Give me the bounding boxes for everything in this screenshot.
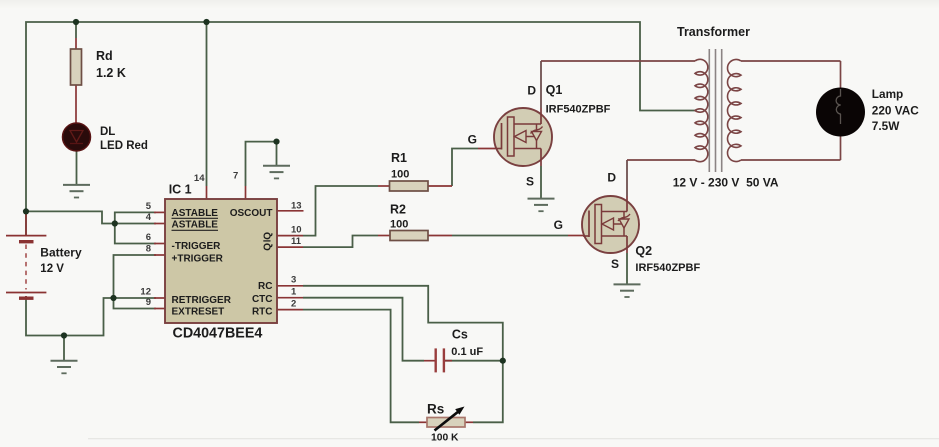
svg-text:IC 1: IC 1 [169,183,192,197]
svg-text:RETRIGGER: RETRIGGER [172,295,232,306]
svg-text:ASTABLE: ASTABLE [172,208,219,219]
svg-text:D: D [607,171,616,185]
svg-text:1.2 K: 1.2 K [96,66,126,80]
svg-text:RTC: RTC [252,307,273,318]
svg-text:7.5W: 7.5W [872,119,900,133]
svg-text:R2: R2 [390,203,406,217]
svg-text:CTC: CTC [252,294,273,305]
svg-text:Transformer: Transformer [677,25,750,39]
svg-text:LED Red: LED Red [100,140,148,152]
svg-text:11: 11 [291,236,302,247]
svg-text:+TRIGGER: +TRIGGER [172,254,224,265]
svg-text:12: 12 [140,287,151,298]
svg-text:100: 100 [391,169,409,181]
svg-text:OSCOUT: OSCOUT [230,208,273,219]
svg-text:7: 7 [233,171,238,182]
svg-text:12 V - 230 V 50 VA: 12 V - 230 V 50 VA [673,175,779,189]
svg-text:S: S [611,257,619,271]
svg-text:G: G [554,218,563,232]
svg-text:14: 14 [194,173,205,184]
svg-text:1: 1 [291,286,297,297]
svg-text:100 K: 100 K [431,432,459,443]
svg-text:13: 13 [291,201,302,212]
svg-text:6: 6 [146,232,151,243]
svg-text:Rd: Rd [96,49,113,63]
svg-text:220 VAC: 220 VAC [872,104,919,118]
svg-text:EXTRESET: EXTRESET [172,307,225,318]
svg-text:Q: Q [262,243,273,251]
svg-text:Battery: Battery [40,246,82,260]
svg-text:12 V: 12 V [40,263,64,275]
svg-text:IRF540ZPBF: IRF540ZPBF [635,262,700,274]
svg-text:S: S [526,175,534,189]
svg-text:CD4047BEE4: CD4047BEE4 [173,326,263,342]
svg-text:Rs: Rs [427,402,444,417]
svg-text:IRF540ZPBF: IRF540ZPBF [546,104,611,116]
svg-text:-TRIGGER: -TRIGGER [172,241,222,252]
svg-text:0.1 uF: 0.1 uF [451,346,483,358]
svg-text:D: D [527,84,536,98]
svg-text:Lamp: Lamp [872,87,903,101]
svg-text:3: 3 [291,275,296,286]
svg-text:DL: DL [100,126,115,138]
svg-text:Q: Q [262,232,273,240]
svg-text:Q1: Q1 [546,83,563,97]
svg-text:Cs: Cs [452,328,468,342]
svg-text:100: 100 [390,219,408,231]
svg-text:ASTABLE: ASTABLE [172,220,219,231]
svg-text:4: 4 [146,212,152,223]
svg-text:R1: R1 [391,151,407,165]
svg-text:G: G [468,133,477,147]
svg-text:Q2: Q2 [635,244,652,258]
svg-text:5: 5 [146,201,152,212]
svg-text:10: 10 [291,224,302,235]
svg-text:2: 2 [291,298,296,309]
svg-text:RC: RC [258,281,272,292]
svg-text:8: 8 [146,244,151,255]
svg-text:9: 9 [146,297,151,308]
